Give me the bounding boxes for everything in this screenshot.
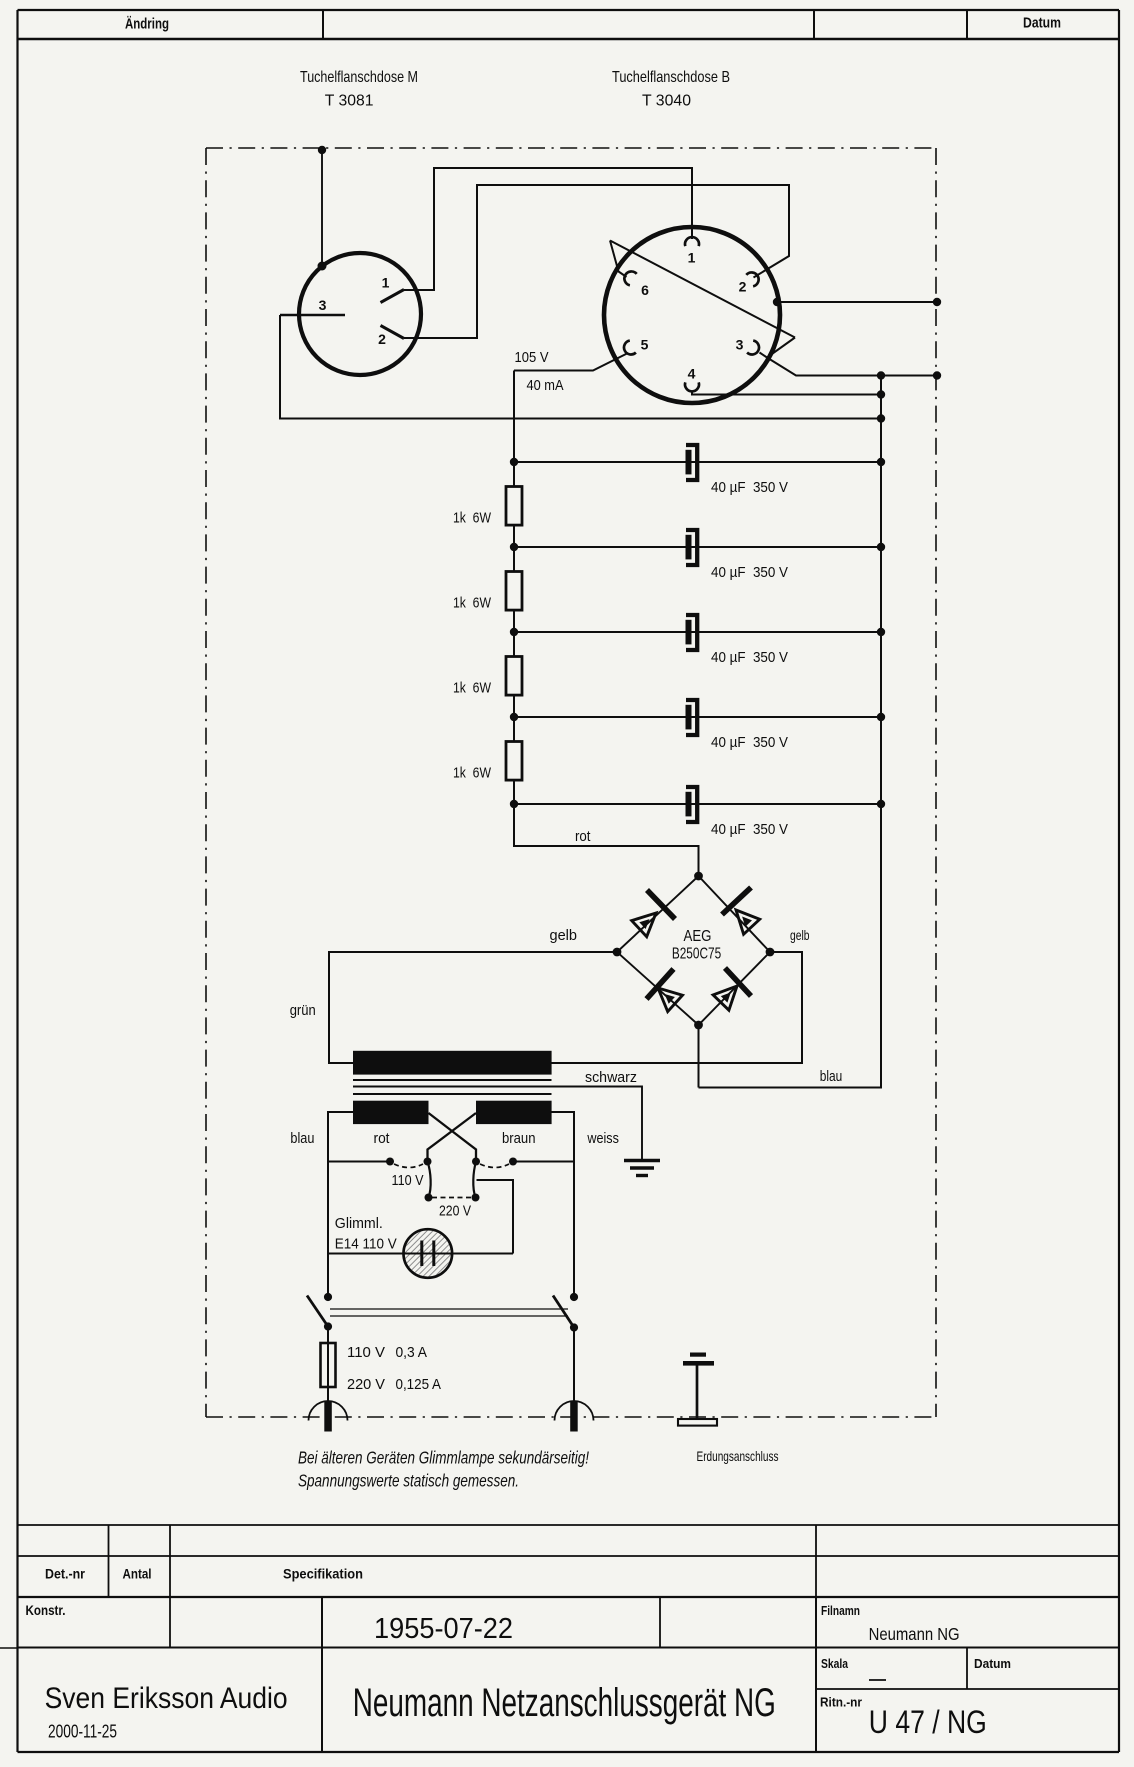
svg-text:1955-07-22: 1955-07-22	[374, 1613, 513, 1645]
svg-text:40 µF 350 V: 40 µF 350 V	[711, 734, 788, 751]
svg-text:1k 6W: 1k 6W	[453, 510, 492, 527]
svg-text:220 V: 220 V	[439, 1203, 471, 1220]
svg-text:Neumann Netzanschlussgerät NG: Neumann Netzanschlussgerät NG	[353, 1681, 776, 1725]
svg-text:3: 3	[319, 297, 327, 313]
svg-text:AEG: AEG	[684, 928, 712, 945]
svg-text:4: 4	[688, 366, 696, 382]
svg-text:Tuchelflanschdose B: Tuchelflanschdose B	[612, 69, 730, 86]
svg-text:Spannungswerte statisch gemess: Spannungswerte statisch gemessen.	[298, 1471, 519, 1491]
svg-text:weiss: weiss	[587, 1130, 619, 1147]
svg-text:40 mA: 40 mA	[527, 377, 564, 394]
svg-text:braun: braun	[502, 1130, 536, 1147]
svg-text:Konstr.: Konstr.	[26, 1603, 66, 1618]
svg-text:5: 5	[641, 337, 649, 353]
svg-text:Antal: Antal	[123, 1567, 152, 1582]
svg-text:Neumann NG: Neumann NG	[869, 1624, 960, 1644]
svg-text:0,125 A: 0,125 A	[396, 1376, 442, 1393]
svg-text:1: 1	[688, 250, 696, 266]
svg-text:rot: rot	[374, 1130, 391, 1147]
svg-text:B250C75: B250C75	[672, 946, 721, 963]
svg-text:schwarz: schwarz	[585, 1069, 637, 1086]
svg-text:U 47 / NG: U 47 / NG	[869, 1704, 987, 1740]
svg-text:110 V: 110 V	[347, 1344, 385, 1361]
svg-text:blau: blau	[820, 1068, 843, 1085]
svg-text:6: 6	[641, 282, 649, 298]
svg-text:gelb: gelb	[550, 927, 578, 944]
svg-text:Erdungsanschluss: Erdungsanschluss	[697, 1448, 779, 1464]
svg-text:105 V: 105 V	[515, 349, 549, 366]
svg-text:rot: rot	[575, 828, 591, 845]
svg-text:40 µF 350 V: 40 µF 350 V	[711, 564, 788, 581]
svg-text:Tuchelflanschdose M: Tuchelflanschdose M	[300, 69, 418, 86]
svg-text:2000-11-25: 2000-11-25	[48, 1722, 117, 1742]
svg-text:Filnamn: Filnamn	[821, 1603, 860, 1618]
svg-text:1k 6W: 1k 6W	[453, 765, 492, 782]
svg-text:40 µF 350 V: 40 µF 350 V	[711, 479, 788, 496]
svg-text:Specifikation: Specifikation	[283, 1567, 363, 1582]
svg-text:E14 110 V: E14 110 V	[335, 1236, 397, 1253]
svg-text:2: 2	[378, 331, 386, 347]
svg-text:Ändring: Ändring	[125, 16, 169, 33]
svg-text:Bei älteren Geräten Glimmlampe: Bei älteren Geräten Glimmlampe sekundärs…	[298, 1448, 589, 1468]
svg-text:1k 6W: 1k 6W	[453, 680, 492, 697]
svg-text:gelb: gelb	[790, 928, 810, 943]
svg-text:Datum: Datum	[1023, 15, 1061, 32]
svg-text:220 V: 220 V	[347, 1376, 385, 1393]
svg-text:1: 1	[382, 275, 390, 291]
svg-text:Datum: Datum	[974, 1656, 1011, 1671]
svg-text:blau: blau	[290, 1130, 314, 1147]
svg-text:Skala: Skala	[821, 1656, 849, 1671]
svg-text:3: 3	[736, 337, 744, 353]
svg-text:110 V: 110 V	[392, 1172, 424, 1189]
svg-text:grün: grün	[290, 1002, 316, 1019]
svg-text:Sven Eriksson Audio: Sven Eriksson Audio	[45, 1682, 288, 1715]
svg-text:2: 2	[739, 279, 747, 295]
svg-text:Det.-nr: Det.-nr	[45, 1567, 86, 1582]
svg-text:0,3 A: 0,3 A	[396, 1344, 428, 1361]
svg-text:T 3040: T 3040	[642, 93, 691, 110]
svg-text:1k 6W: 1k 6W	[453, 595, 492, 612]
svg-text:Ritn.-nr: Ritn.-nr	[820, 1695, 862, 1710]
svg-text:40 µF 350 V: 40 µF 350 V	[711, 821, 788, 838]
svg-text:40 µF 350 V: 40 µF 350 V	[711, 649, 788, 666]
svg-text:T 3081: T 3081	[325, 93, 374, 110]
svg-text:Glimml.: Glimml.	[335, 1215, 383, 1232]
